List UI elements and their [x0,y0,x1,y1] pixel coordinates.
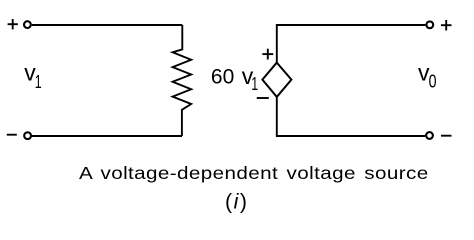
wire bottom-right rail with corner up to source [277,97,425,136]
svg-text:(i): (i) [225,190,247,214]
terminal circle bottom-right [426,132,433,139]
minus sign bottom-right terminal polarity [441,135,452,137]
svg-text:0: 0 [429,72,437,92]
svg-text:A voltage-dependent voltage so: A voltage-dependent voltage source [79,164,429,183]
terminal circle bottom-left [24,132,31,139]
dependent voltage source diamond [262,63,291,97]
plus sign above dependent source [262,49,273,60]
svg-text:60: 60 [211,65,234,88]
wire top-left rail [32,24,183,26]
svg-text:1: 1 [251,74,258,94]
minus sign below dependent source [257,97,269,99]
plus sign top-right terminal polarity [441,20,452,31]
terminal circle top-right [426,21,433,28]
wire bottom-left rail [32,135,182,137]
wire top-right rail with corner down to source [277,25,426,63]
terminal circle top-left [24,21,31,28]
plus sign top-left terminal polarity [8,19,18,29]
svg-text:1: 1 [35,72,42,92]
resistor 60 ohm (vertical zigzag with leads) [173,25,192,136]
minus sign bottom-left terminal polarity [7,134,17,136]
